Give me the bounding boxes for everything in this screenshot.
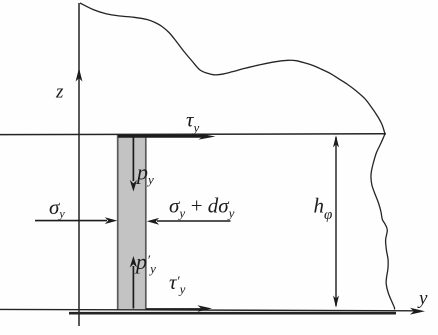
svg-text:hφ: hφ <box>314 194 333 224</box>
svg-text:p′y: p′y <box>134 249 156 276</box>
svg-text:y: y <box>417 288 428 309</box>
svg-text:σy: σy <box>49 195 65 221</box>
svg-text:py: py <box>135 160 154 188</box>
svg-text:τy: τy <box>186 108 200 136</box>
svg-text:z: z <box>55 82 64 103</box>
svg-text:τ′y: τ′y <box>169 270 186 297</box>
svg-text:σy + dσy: σy + dσy <box>169 194 235 221</box>
